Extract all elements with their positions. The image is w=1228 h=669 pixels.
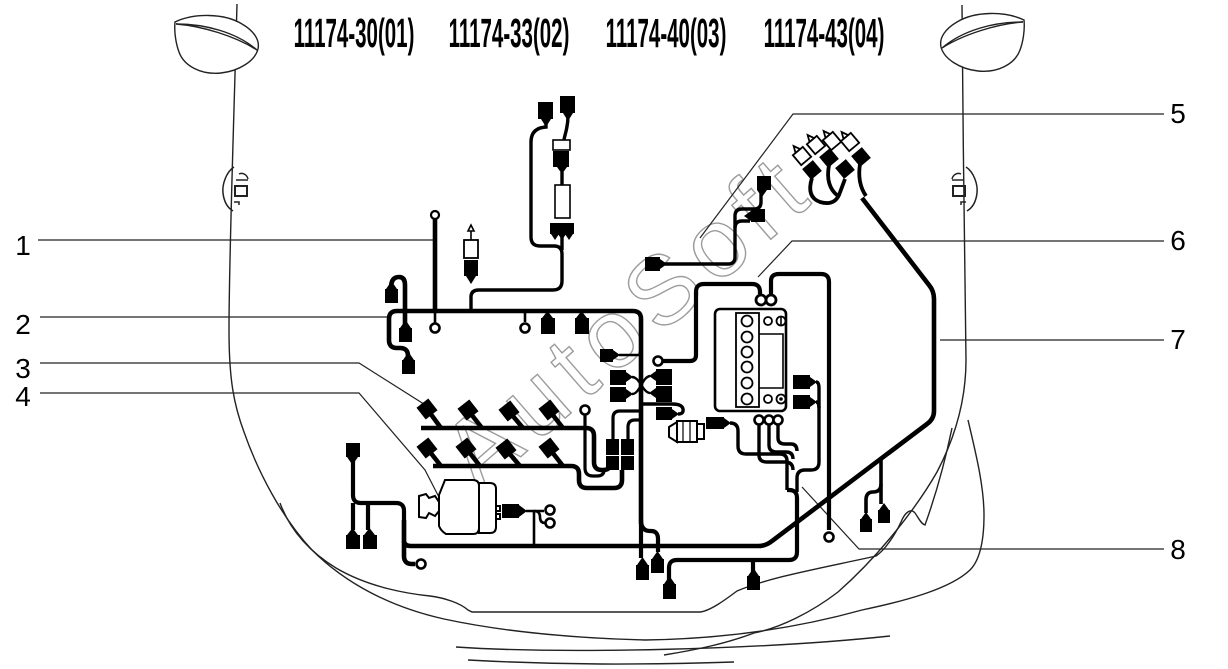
- svg-text:4: 4: [15, 381, 31, 412]
- svg-text:5: 5: [1170, 98, 1186, 129]
- svg-text:8: 8: [1170, 534, 1186, 565]
- svg-text:3: 3: [15, 353, 31, 384]
- svg-text:7: 7: [1170, 324, 1186, 355]
- svg-text:11174-33(02): 11174-33(02): [449, 10, 570, 56]
- svg-text:11174-43(04): 11174-43(04): [764, 10, 885, 56]
- svg-text:11174-40(03): 11174-40(03): [606, 10, 727, 56]
- svg-text:6: 6: [1170, 225, 1186, 256]
- svg-text:1: 1: [15, 230, 31, 261]
- svg-text:2: 2: [15, 309, 31, 340]
- svg-text:11174-30(01): 11174-30(01): [294, 10, 415, 56]
